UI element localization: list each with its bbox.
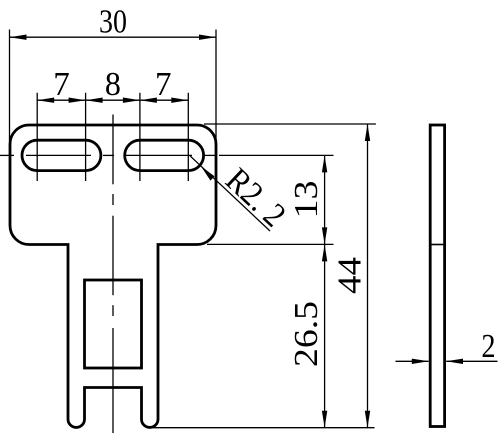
dimension 30 <box>10 30 217 142</box>
side view divider <box>430 244 444 246</box>
vertical centerline <box>112 115 114 433</box>
svg-text:7: 7 <box>53 66 70 103</box>
slot left <box>22 140 101 170</box>
svg-text:30: 30 <box>99 4 127 41</box>
svg-text:13: 13 <box>288 181 325 219</box>
dimension 7 8 7 <box>37 93 188 181</box>
extension line head bottom <box>207 243 334 245</box>
svg-text:7: 7 <box>155 66 172 103</box>
leader R2.2 <box>190 156 270 231</box>
dimension 13 <box>324 155 326 244</box>
svg-text:8: 8 <box>105 66 121 103</box>
svg-text:2: 2 <box>481 328 495 365</box>
part front view outline <box>10 125 216 427</box>
dimension 26.5 <box>324 244 326 427</box>
extension line top <box>204 123 376 125</box>
slot right <box>125 140 204 170</box>
extension line bottom <box>149 427 375 429</box>
svg-text:R2. 2: R2. 2 <box>218 162 292 235</box>
dimension 2 <box>396 360 498 362</box>
side view outline <box>430 125 444 427</box>
dimension 44 <box>367 124 369 428</box>
svg-text:44: 44 <box>332 257 369 294</box>
inner rectangle hole <box>85 280 142 368</box>
horizontal slot centerline <box>0 154 215 156</box>
extension line slot centerline right <box>219 154 334 156</box>
svg-text:26.5: 26.5 <box>288 301 325 367</box>
